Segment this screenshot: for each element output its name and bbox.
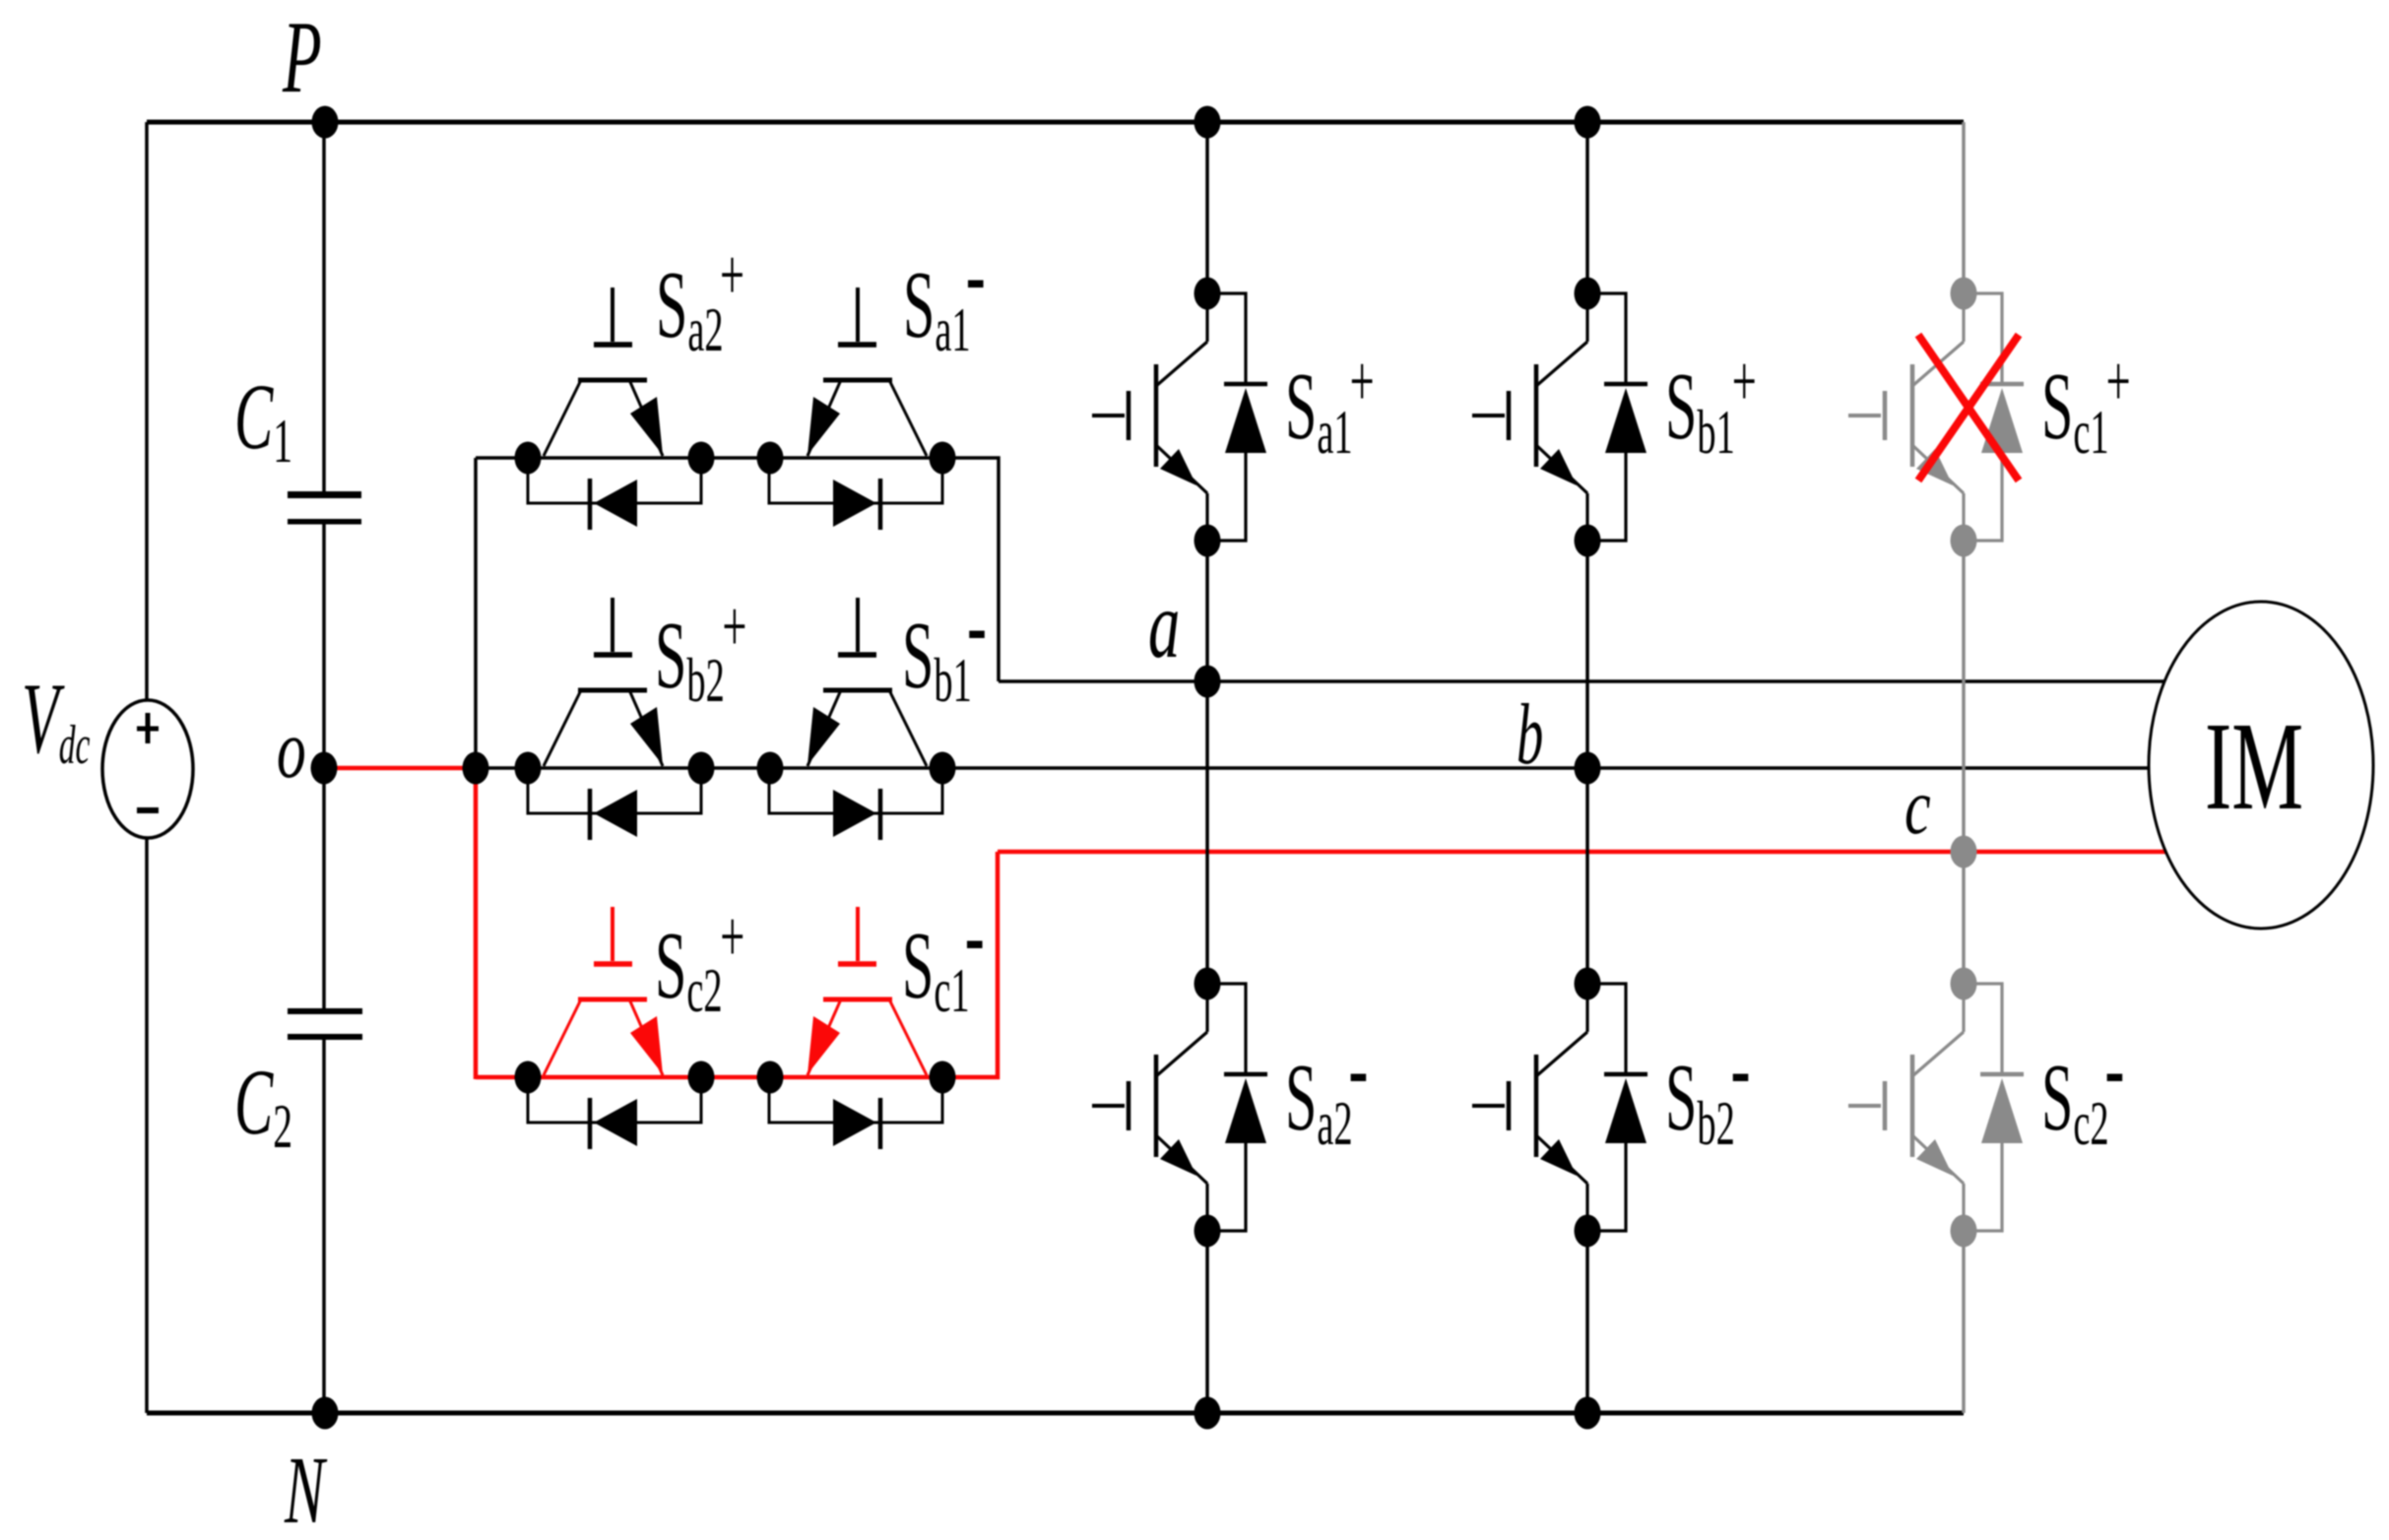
diode of Sc1-	[769, 1079, 942, 1149]
node P	[312, 106, 339, 139]
row C node 3	[757, 1061, 784, 1094]
leg c collector node gray	[1951, 278, 1977, 310]
svg-text:Sa2+: Sa2+	[656, 236, 744, 365]
wire: leg a top	[1205, 122, 1209, 293]
diode of Sb2+	[528, 770, 701, 840]
svg-text:Sb1-: Sb1-	[902, 570, 987, 715]
diode of Sb1-	[769, 770, 942, 840]
row A node 1	[515, 442, 542, 475]
leg a collector node	[1194, 278, 1221, 310]
svg-text:Sc1+: Sc1+	[2041, 343, 2131, 468]
wire: row C red rail	[476, 852, 998, 1077]
svg-text:IM: IM	[2205, 697, 2303, 837]
node b	[1575, 752, 1601, 785]
svg-text:P: P	[282, 0, 322, 114]
wire: row B rail and phase b to IM	[476, 766, 2149, 770]
wire: red drop junction to row C	[474, 768, 479, 1079]
leg b lower emitter node	[1575, 1215, 1601, 1248]
row A node 4	[930, 442, 956, 475]
leg a lower collector node	[1194, 968, 1221, 1000]
wire: left source branch lower	[145, 836, 149, 1413]
IGBT Sa1+ with antiparallel diode	[1092, 293, 1267, 541]
leg b lower collector node	[1575, 968, 1601, 1000]
fault cross on Sc1+	[1918, 335, 2019, 481]
row C node 1	[515, 1061, 542, 1094]
svg-text:Sa1-: Sa1-	[903, 220, 986, 364]
svg-text:o: o	[277, 703, 306, 796]
row A node 2	[688, 442, 715, 475]
capacitor C2	[288, 1008, 362, 1014]
IGBT Sa2- with antiparallel diode	[1092, 984, 1267, 1231]
leg c emitter node gray	[1951, 525, 1977, 557]
junction top rail leg b	[1575, 106, 1601, 139]
wire: leg b middle	[1585, 541, 1589, 984]
leg c lower collector node gray	[1951, 968, 1977, 1000]
wire: capacitor branch P to C1	[322, 122, 326, 493]
wire: leg c top gray	[1962, 122, 1966, 293]
svg-text:Sb2-: Sb2-	[1665, 1013, 1751, 1158]
wire: top rail P	[147, 120, 1964, 125]
junction top rail leg a	[1194, 106, 1221, 139]
capacitor C1	[288, 491, 361, 498]
wire: red phase c to IM	[998, 850, 2165, 855]
diode of Sc2+	[528, 1079, 701, 1149]
wire: leg b top	[1585, 122, 1589, 293]
motor IM	[2149, 602, 2373, 929]
junction bottom rail leg a	[1194, 1397, 1221, 1430]
IGBT Sb1+ with antiparallel diode	[1472, 293, 1647, 541]
wire: leg a bottom	[1205, 1231, 1209, 1413]
node c gray	[1951, 836, 1977, 868]
wire: left source branch upper	[145, 122, 149, 702]
transistor Sc2+ (row C left IGBT, red)	[544, 907, 663, 1075]
leg b emitter node	[1575, 525, 1601, 557]
wire: leg b bottom	[1585, 1231, 1589, 1413]
diode of Sa1-	[769, 460, 942, 530]
wire: C1 to node o	[322, 524, 326, 768]
row B node 2	[688, 752, 715, 785]
svg-text:N: N	[284, 1436, 328, 1540]
transistor Sb2+ (row B left IGBT)	[544, 598, 663, 766]
svg-text:C1: C1	[234, 366, 292, 476]
wire: leg c middle gray	[1962, 541, 1966, 984]
node o	[311, 752, 338, 785]
svg-text:c: c	[1905, 764, 1931, 851]
row B node 4	[930, 752, 956, 785]
transistor Sa1- (row A right IGBT, mirrored)	[807, 288, 927, 456]
leg b collector node	[1575, 278, 1601, 310]
leg a emitter node	[1194, 525, 1221, 557]
diode of Sa2+	[528, 460, 701, 530]
wire: leg c bottom gray	[1962, 1231, 1966, 1413]
wire: phase a to IM	[999, 679, 2164, 683]
wire: leg a middle	[1205, 541, 1209, 984]
voltage source Vdc	[102, 700, 193, 838]
svg-text:Vdc: Vdc	[22, 663, 90, 775]
svg-text:b: b	[1517, 686, 1543, 782]
transistor Sa2+ (row A left IGBT)	[544, 288, 663, 456]
junction bottom rail leg b	[1575, 1397, 1601, 1430]
wire: bottom rail N	[147, 1411, 1964, 1416]
svg-text:Sb2+: Sb2+	[655, 588, 746, 716]
wire: red from node o to junction	[326, 766, 476, 771]
wire: C2 to bottom rail	[322, 1038, 326, 1413]
transistor Sc1- (row C right IGBT, red, mirrored)	[807, 907, 927, 1075]
svg-text:Sa1+: Sa1+	[1285, 343, 1375, 468]
row B node 1	[515, 752, 542, 785]
svg-text:Sc2-: Sc2-	[2041, 1013, 2124, 1158]
node N	[312, 1397, 339, 1430]
row B node 3	[757, 752, 784, 785]
svg-text:Sa2-: Sa2-	[1285, 1013, 1368, 1158]
transistor Sb1- (row B right IGBT, mirrored)	[807, 598, 927, 766]
wire: black riser row A to junction	[474, 458, 478, 768]
IGBT Sc1+ with antiparallel diode (faulty, gray)	[1848, 293, 2024, 541]
row C node 2	[688, 1061, 715, 1094]
wire: row A rail	[476, 458, 999, 681]
svg-text:a: a	[1148, 571, 1180, 678]
IGBT Sc2- with antiparallel diode (gray)	[1848, 984, 2024, 1231]
leg a lower emitter node	[1194, 1215, 1221, 1248]
wire: node o to C2	[322, 768, 326, 1009]
svg-text:C2: C2	[234, 1052, 292, 1161]
svg-text:Sc2+: Sc2+	[655, 898, 744, 1026]
IGBT Sb2- with antiparallel diode	[1472, 984, 1647, 1231]
row C node 4	[930, 1061, 956, 1094]
svg-text:Sb1+: Sb1+	[1665, 343, 1757, 468]
junction o riser	[463, 752, 489, 785]
svg-text:Sc1-: Sc1-	[902, 880, 985, 1025]
row A node 3	[757, 442, 784, 475]
node a	[1194, 666, 1221, 698]
leg c lower emitter node gray	[1951, 1215, 1977, 1248]
